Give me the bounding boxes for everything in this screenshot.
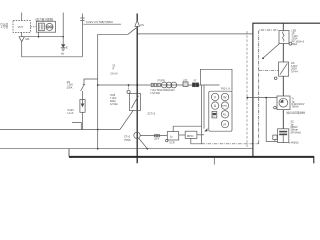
wire DS1 to LA [82,91,84,100]
transformer VCT (dashed box) [13,21,31,33]
svg-text:L-4066Ω: L-4066Ω [289,142,299,145]
wire OCR riser [173,126,201,131]
svg-text:ZCT×2: ZCT×2 [147,113,155,116]
node junction dot leg/thin bus [97,148,99,150]
node junction dot meter drop [38,36,40,38]
wire diagonal to VCB [120,110,133,129]
svg-text:VTT: VTT [183,79,188,82]
svg-text:VT: VT [193,79,197,82]
arrester LA box [80,100,85,113]
wire loop over meter box [200,69,232,91]
svg-text:１号柱: １号柱 [0,25,8,29]
svg-text:F62-1-9: F62-1-9 [221,88,230,91]
svg-text:1.5A 30A: 1.5A 30A [150,92,160,95]
arrester E(A) earth symbol [61,45,68,56]
node VCB label [110,94,118,106]
node ZCT label [147,113,155,116]
svg-text:6.6kV CVT38(T)50M: 6.6kV CVT38(T)50M [86,20,113,24]
wire bus stub 1 [213,158,215,165]
node junction dot diag [146,148,148,150]
lamp RL [221,111,228,118]
disconnector DS cubicle [274,62,288,80]
meter A [211,102,218,109]
svg-text:LA×3: LA×3 [67,112,74,115]
node label 52R [111,65,119,76]
svg-text:OCR: OCR [169,141,175,144]
node junction dot leg/VT wire [97,84,99,86]
svg-text:CTT: CTT [154,138,159,141]
node junction dot VT tap [136,84,138,86]
wire DS1 top feed [84,79,98,84]
fuse block dark pair [192,79,198,86]
node cable ticks [80,17,84,19]
svg-text:RL: RL [223,113,227,117]
switch LBS with fuse [279,31,292,46]
node meter cabinet label (電力量計器類) [35,18,53,22]
node dot blade end [262,57,264,59]
wire cubicle main line [282,23,284,129]
transformer Tr [274,96,290,110]
node cable label 6.6kV CVT [86,20,113,24]
wire meter drop 2 [203,85,205,129]
node junction dot [97,129,99,131]
meter VF [221,120,228,127]
wire thin horizontal bus [0,148,253,150]
wire bus left riser [68,149,70,157]
wire DS2 left horizontal [98,33,128,35]
meter W [221,93,228,100]
wire stub upper ledge [72,123,81,130]
svg-text:75/5A: 75/5A [124,139,131,142]
svg-text:C6-0-6: C6-0-6 [111,74,119,76]
node LBS label [292,30,305,46]
node arrow into box [204,128,207,131]
wire incoming cable [81,14,83,57]
fuse VT primary [151,83,160,86]
wire CT diagonal [138,138,147,149]
svg-text:I>: I> [170,135,173,139]
node pole label 引込柱 [0,22,8,29]
svg-text:(換気扇用電源他): (換気扇用電源他) [286,111,305,115]
node junction dot VCB link [128,84,130,86]
wire arrester branch [22,36,64,38]
terminal VTT gray box [183,79,188,86]
svg-text:DS: DS [141,24,145,27]
wire dash-dot interlock [259,69,279,71]
panel meter box [209,91,232,131]
node Tr label [286,98,305,115]
svg-text:VCT: VCT [18,25,24,29]
svg-text:MPD: MPD [187,134,195,138]
relay OCR [166,132,179,145]
disconnector DS1 [81,85,86,91]
wire bus right end drop [313,157,315,163]
wire meter drop [38,32,40,37]
capacitor SC box [278,129,289,143]
meter WHM box [36,21,55,32]
wire service stub above VCT [21,13,23,21]
terminal CTT [154,134,160,141]
wire VT branch horizontal [98,84,220,86]
wire arrester riser [62,13,64,45]
wire GR loop down and right [22,42,83,57]
wire Tr LV branch [247,97,277,99]
svg-text:R: R [113,68,115,71]
transformer VT circles [161,82,176,88]
svg-text:VT(PF): VT(PF) [157,80,165,83]
wire LA down to lower run [82,112,84,129]
wire main vertical [136,14,138,164]
svg-text:(A): (A) [61,52,65,56]
wire meter drop 1 [201,85,203,144]
node label F62-1-9 [221,88,230,91]
svg-text:E: E [66,46,68,50]
breaker VCB [127,90,140,110]
node SC label [289,121,301,145]
node dots LV branch [247,97,249,99]
ground GR contact triangle [19,37,29,42]
relay MPD [185,131,197,138]
node junction dot arrester tap [62,36,64,38]
node DS cubicle label [291,62,298,73]
svg-text:75kVA: 75kVA [292,106,300,109]
wire gray dashed boundary [246,31,248,148]
svg-text:200A: 200A [67,86,73,89]
wire dash-dot trip line [202,143,259,145]
lamp PL square [212,112,217,119]
wire long leg vertical [97,34,99,148]
transformer CT ring [124,132,140,142]
bus LV main (thick) [69,156,314,158]
wire CT to relay chain [140,135,167,137]
node DS1 label [67,81,74,89]
wire gray horizontal to cubicle [137,33,252,35]
meter V [211,93,218,100]
svg-text:40kA: 40kA [292,43,298,46]
wire VCT down to GR [21,32,23,36]
wire LV down to SC [266,98,277,142]
svg-text:ST4-4: ST4-4 [291,70,298,73]
wire LBS blade [263,44,279,59]
disconnector DS2 top [128,20,144,34]
node VT labels [150,80,175,95]
node junction dot main/cubicle wire [137,33,138,34]
wire OCR to MPD [179,134,186,136]
panel cubicle border [253,23,320,156]
svg-text:12.5kA: 12.5kA [110,103,118,106]
wire MPD right [197,134,204,136]
resistor discharge small box [273,135,277,141]
svg-text:GR: GR [25,37,29,41]
wire MPD trip down [191,138,202,143]
wire dashed link VCT to meters [31,26,37,28]
svg-text:VF: VF [223,122,227,126]
meter WHM [221,102,228,109]
svg-text:WHM: WHM [222,106,227,108]
node LA label [67,109,74,115]
wire dashed VCB link [128,86,130,91]
wire lower horizontal run [0,129,120,131]
wire dash-dot demarcation [259,30,279,144]
svg-text:SR 6%付: SR 6%付 [291,130,302,134]
